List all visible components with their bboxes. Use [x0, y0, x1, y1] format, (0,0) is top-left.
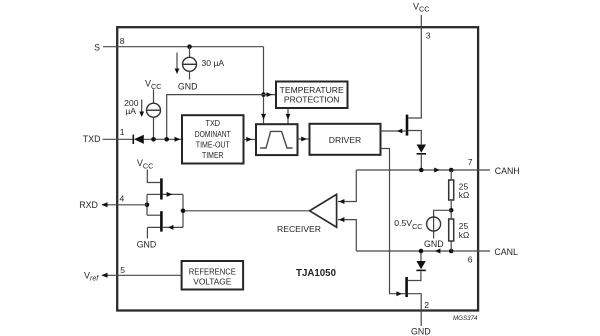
svg-text:TEMPERATURE: TEMPERATURE: [280, 86, 345, 95]
wire RXD pin 4: [103, 204, 148, 206]
wire CANH to R1: [450, 170, 452, 180]
wire timer to filter: [244, 138, 257, 140]
svg-text:MGS374: MGS374: [453, 316, 478, 322]
wire driver to Q2 gate: [381, 149, 406, 294]
transistor Q1 high-side: [406, 115, 409, 136]
arrow into timer: [175, 137, 181, 142]
wire I1 to ground: [189, 71, 191, 79]
wire I2 to TXD line: [153, 117, 155, 139]
node R1 tap on CANH: [449, 168, 454, 173]
wire Q3 gate: [163, 193, 183, 195]
node receiver out: [181, 209, 186, 214]
svg-text:kΩ: kΩ: [459, 230, 469, 240]
wire to current source I1: [189, 47, 191, 58]
wire driver to Q1 gate: [381, 130, 406, 132]
svg-text:TIME-OUT: TIME-OUT: [196, 140, 230, 149]
wire CANH to receiver input: [338, 170, 356, 202]
current source I2 200uA: [147, 103, 161, 117]
transistor Q4 RXD low-side: [160, 211, 163, 231]
svg-text:TJA1050: TJA1050: [296, 268, 337, 279]
transistor Q2 low-side: [405, 277, 408, 297]
wire 0.5VCC source to midpoint: [434, 210, 452, 238]
block reference voltage: [182, 261, 244, 290]
node D3 on CANL: [419, 249, 424, 254]
arrow RXD output: [101, 202, 107, 207]
arrow on CANL line: [435, 249, 441, 254]
wire VCC to Q3: [147, 170, 160, 183]
svg-text:S: S: [94, 43, 100, 53]
wire S pin 8 horizontal: [103, 46, 264, 48]
node temp-line tap: [164, 137, 169, 142]
svg-text:RECEIVER: RECEIVER: [277, 225, 321, 234]
svg-text:GND: GND: [178, 82, 198, 92]
wire Q4 to ground: [147, 227, 160, 238]
block slope control filter: [256, 124, 298, 155]
transistor Q3 RXD high-side: [160, 178, 163, 199]
svg-text:5: 5: [120, 265, 125, 275]
node S line junction: [187, 44, 192, 49]
wire R2 to CANL: [450, 241, 452, 251]
arrow Vref output: [101, 273, 107, 278]
svg-text:CANL: CANL: [494, 247, 518, 257]
node I2 tap: [151, 137, 156, 142]
svg-text:8: 8: [120, 36, 125, 46]
chip boundary TJA1050: [117, 27, 478, 310]
current direction arrow for I1: [176, 53, 178, 70]
diode D2 CANH: [417, 145, 426, 154]
wire Q2 drain to diode D3: [408, 272, 421, 281]
node RXD: [145, 203, 150, 208]
wire Q1 source to diode D2: [408, 131, 421, 145]
wire TXD pin 1: [103, 138, 134, 140]
svg-text:7: 7: [468, 157, 473, 167]
svg-text:VOLTAGE: VOLTAGE: [193, 277, 232, 286]
svg-text:6: 6: [468, 254, 473, 264]
arrow on CANH line: [434, 168, 440, 173]
svg-text:GND: GND: [411, 327, 431, 336]
wire S vertical to slope filter: [263, 47, 265, 125]
wire Q3 to RXD node: [147, 193, 160, 195]
svg-text:DRIVER: DRIVER: [329, 136, 362, 145]
current direction arrow for I2: [141, 100, 143, 112]
svg-text:kΩ: kΩ: [459, 190, 469, 200]
svg-text:3: 3: [426, 31, 431, 41]
current source I1 30uA: [183, 57, 197, 71]
wire RXD gate node vertical: [182, 194, 184, 227]
wire CANH net: [356, 169, 490, 171]
wire temp protection to slope filter: [287, 108, 289, 124]
block temperature protection: [276, 82, 348, 109]
svg-text:µA: µA: [125, 106, 136, 116]
wire R1 to R2: [450, 200, 452, 219]
wire filter to driver: [298, 138, 310, 140]
resistor R1 25k: [449, 180, 454, 200]
node R2 tap on CANL: [449, 249, 454, 254]
svg-text:PROTECTION: PROTECTION: [284, 96, 340, 105]
svg-text:REFERENCE: REFERENCE: [189, 268, 236, 277]
wire Q2 source to pin 2: [408, 294, 421, 326]
wire CANL net: [356, 250, 490, 252]
node D2 on CANH: [419, 168, 424, 173]
node resistor midpoint: [449, 208, 454, 213]
svg-text:GND: GND: [424, 239, 444, 249]
svg-text:4: 4: [120, 193, 125, 203]
wire RXD node to Q4: [147, 214, 160, 216]
svg-text:RXD: RXD: [79, 200, 98, 210]
wire Vref pin 5: [104, 274, 182, 276]
diode D1 on TXD input: [133, 135, 144, 144]
block driver: [310, 124, 381, 155]
wire CANL to receiver input: [338, 220, 356, 251]
svg-text:30 µA: 30 µA: [202, 58, 225, 68]
resistor R2 25k: [449, 219, 454, 241]
op-amp U1 receiver: [310, 194, 337, 227]
wire VCC to current source I2: [153, 90, 155, 104]
svg-text:DOMINANT: DOMINANT: [195, 130, 231, 139]
trapezoid waveform symbol: [260, 131, 292, 148]
voltage source 0.5VCC: [427, 217, 441, 231]
svg-text:GND: GND: [137, 239, 157, 249]
wire TXD to timer: [144, 138, 182, 140]
svg-text:TXD: TXD: [206, 119, 221, 128]
wire TXD node to temperature protection: [167, 95, 276, 140]
wire Q1 drain to VCC pin 3: [408, 15, 421, 118]
diode D3 CANL: [416, 261, 425, 270]
wire RXD node vertical: [146, 194, 148, 215]
wire Q4 gate: [163, 226, 183, 228]
wire D2 to CANH net: [420, 154, 422, 170]
wire CANL net to D3: [420, 251, 422, 261]
svg-text:2: 2: [424, 300, 429, 310]
svg-text:CANH: CANH: [495, 166, 520, 176]
svg-text:TIMER: TIMER: [202, 151, 224, 160]
block TXD dominant time-out timer: [182, 115, 244, 163]
wire receiver output to RXD stage: [183, 210, 310, 212]
svg-text:1: 1: [120, 127, 125, 137]
node mode line junction: [261, 92, 266, 97]
svg-text:TXD: TXD: [83, 134, 101, 144]
